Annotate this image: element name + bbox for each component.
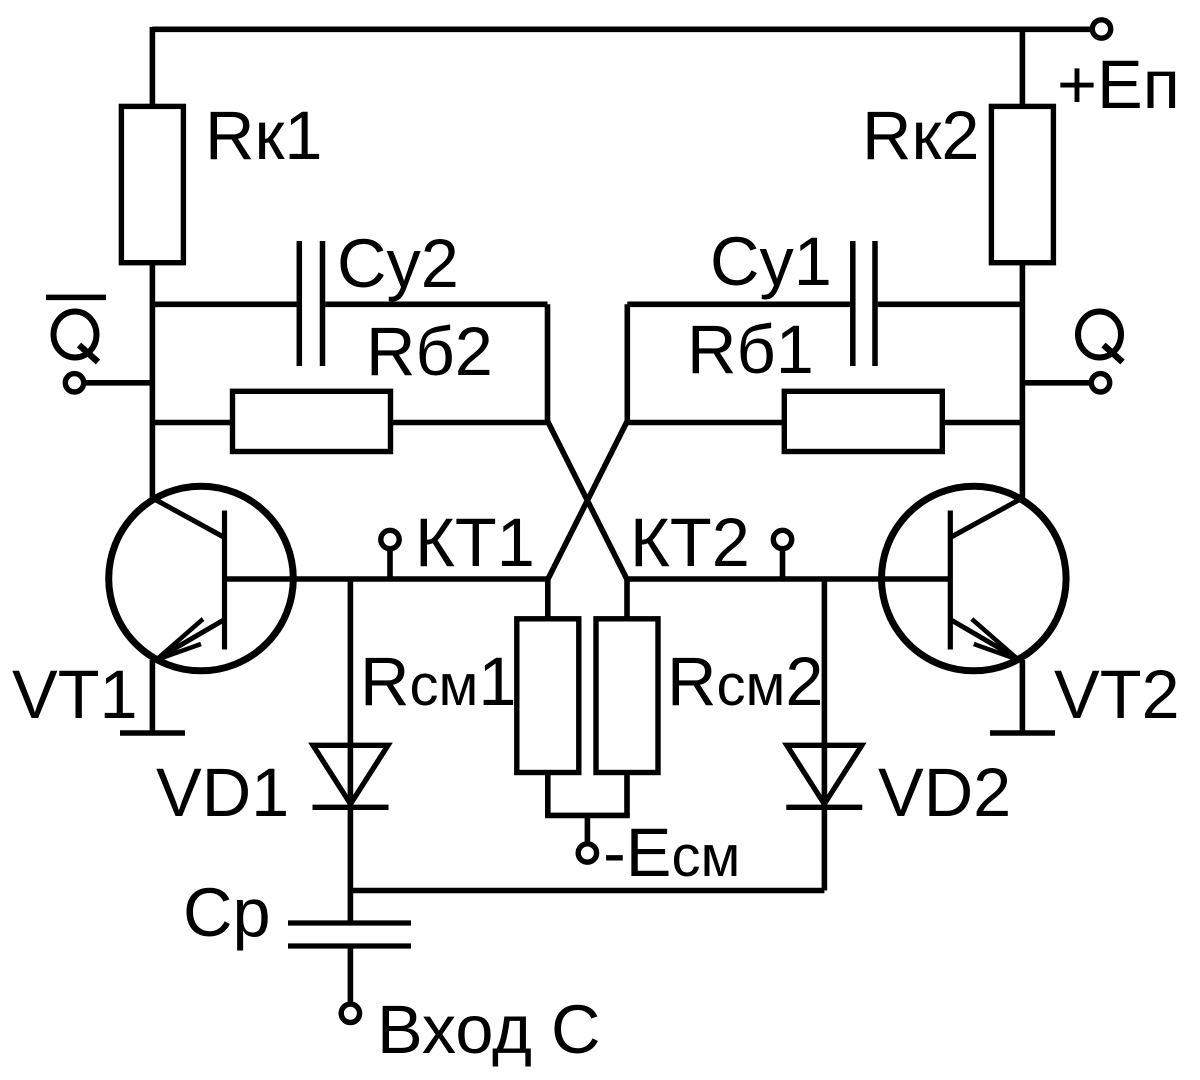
svg-text:КТ2: КТ2 (630, 504, 750, 581)
svg-text:Rк1: Rк1 (205, 97, 323, 174)
svg-text:Ср: Ср (183, 874, 271, 951)
svg-text:Rсм1: Rсм1 (360, 643, 516, 720)
svg-text:+Еп: +Еп (1057, 46, 1180, 123)
svg-text:Rб1: Rб1 (687, 311, 814, 388)
svg-text:VD2: VD2 (878, 754, 1011, 831)
svg-text:VT1: VT1 (12, 656, 138, 733)
svg-text:VD1: VD1 (156, 754, 289, 831)
svg-text:Rк2: Rк2 (862, 97, 980, 174)
svg-text:Су1: Су1 (710, 223, 832, 300)
svg-text:VT2: VT2 (1054, 656, 1180, 733)
svg-text:Вход С: Вход С (377, 991, 600, 1068)
svg-text:Rб2: Rб2 (366, 313, 493, 390)
svg-text:-Есм: -Есм (603, 814, 740, 891)
svg-text:КТ1: КТ1 (415, 504, 535, 581)
svg-text:Rсм2: Rсм2 (667, 643, 823, 720)
svg-text:Су2: Су2 (337, 225, 459, 302)
